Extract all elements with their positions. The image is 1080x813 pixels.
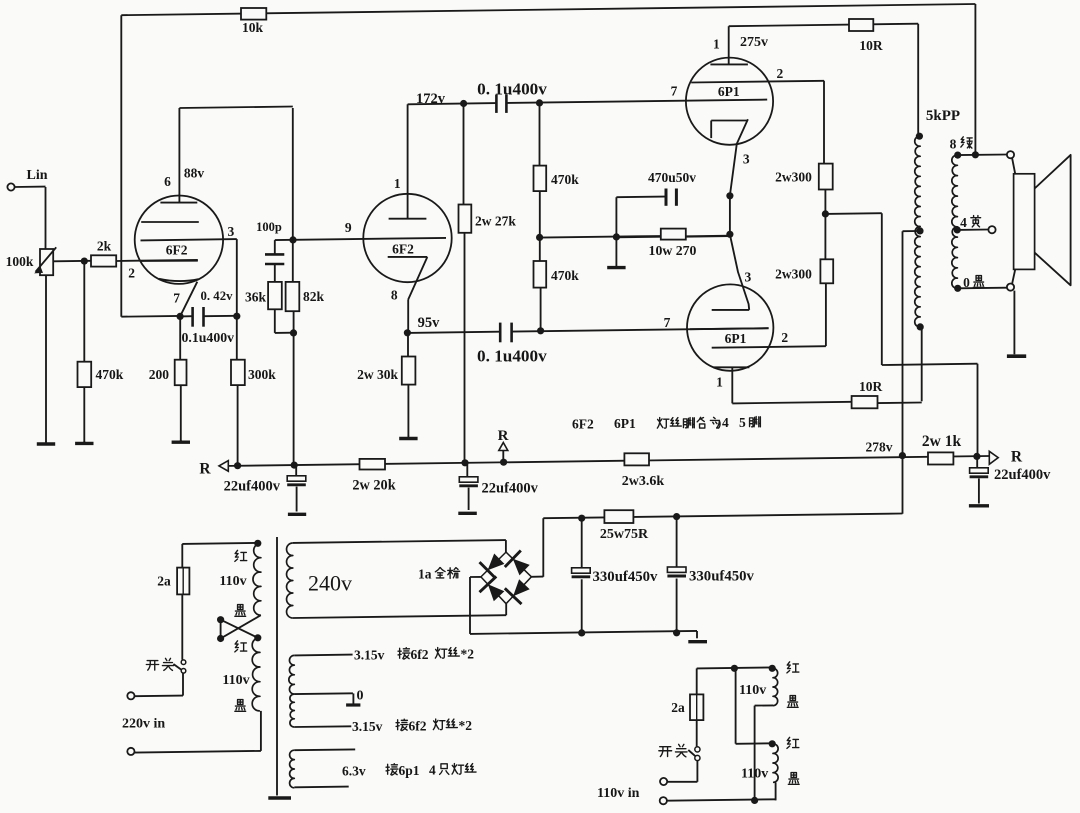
- svg-text:*2: *2: [459, 718, 473, 733]
- svg-text:2w300: 2w300: [775, 267, 812, 282]
- wire primary crossover connections: [221, 615, 261, 638]
- svg-text:172v: 172v: [416, 91, 446, 107]
- wire DC minus rail to ground: [470, 631, 697, 638]
- svg-text:10R: 10R: [859, 379, 883, 394]
- svg-text:R: R: [199, 461, 211, 478]
- wire 25w75R supply rail: [543, 514, 902, 519]
- label 0 centre tap: [357, 689, 364, 704]
- transformer 5kPP output primary: [915, 108, 960, 327]
- wire bridge positive riser: [531, 518, 543, 577]
- transformer mains primary winding 2: [252, 638, 260, 711]
- svg-text:470k: 470k: [96, 367, 124, 382]
- wire right switch to 110v terminal: [667, 761, 698, 782]
- junction dots 5kPP: [916, 133, 924, 331]
- svg-text:3: 3: [228, 224, 235, 239]
- junction dots supply rail: [578, 513, 680, 637]
- fuse 2a 110v unit: [671, 694, 703, 720]
- wire 3.15v winding leads: [294, 655, 353, 727]
- ground under pot: [37, 441, 55, 444]
- label V2 pins: [345, 176, 401, 303]
- svg-text:9: 9: [345, 220, 352, 235]
- wire V1 pin3 plate line to coupling node: [141, 239, 237, 316]
- svg-text:7: 7: [664, 315, 671, 330]
- label V4 pins: [664, 270, 789, 390]
- svg-text:10R: 10R: [859, 38, 883, 53]
- wire V2 pin1 plate riser and 172v row: [408, 103, 496, 219]
- svg-text:110v: 110v: [222, 673, 249, 688]
- resistor 82k: [286, 282, 325, 311]
- wire mid R arrow stem: [502, 450, 504, 462]
- wire pin3 interconnect of both 6P1: [729, 196, 731, 235]
- label 8 green tap: [950, 137, 973, 152]
- switch lever left: [173, 664, 181, 670]
- svg-text:1: 1: [716, 375, 723, 390]
- svg-text:6F2: 6F2: [572, 417, 594, 432]
- wire 110v winding interconnects: [736, 668, 776, 800]
- wire 6.3v winding leads: [294, 749, 355, 787]
- wire 240v winding bottom lead to bridge: [293, 604, 506, 618]
- wire switch to 220v terminal: [134, 673, 183, 696]
- ground speaker return: [1007, 291, 1026, 357]
- svg-text:1a: 1a: [418, 567, 432, 582]
- svg-text:0.1u400v: 0.1u400v: [182, 330, 235, 345]
- tube V1 6F2 first stage: [135, 196, 223, 317]
- terminal 220v neutral: [127, 748, 134, 755]
- svg-text:0. 42v: 0. 42v: [201, 289, 234, 303]
- wire lower 6P1 pin1 plate to bottom 10R to 5kPP bottom: [732, 327, 921, 404]
- label 4 yellow tap: [960, 215, 980, 230]
- svg-text:300k: 300k: [248, 367, 276, 382]
- capacitor 470u50v: [648, 170, 696, 206]
- ground under left 22uf: [288, 513, 306, 516]
- resistor 2w300 upper: [775, 164, 833, 190]
- tube V3 6P1 upper output: [686, 58, 773, 196]
- label mains primary red black: [219, 550, 249, 711]
- transformer 110v unit winding 1: [773, 668, 778, 705]
- switch mains: [146, 658, 185, 673]
- R bias rail mid arrow: [498, 428, 509, 451]
- potentiometer 100k volume: [6, 247, 57, 275]
- svg-text:2w3.6k: 2w3.6k: [622, 474, 665, 489]
- svg-text:275v: 275v: [740, 35, 768, 50]
- wire Lin input to volume pot: [15, 187, 46, 249]
- svg-text:6: 6: [164, 174, 171, 189]
- resistor 10w270: [649, 229, 697, 258]
- terminal speaker minus: [1007, 284, 1014, 291]
- svg-text:3.15v: 3.15v: [354, 648, 385, 663]
- svg-text:6P1: 6P1: [614, 416, 636, 431]
- resistor 300k: [231, 360, 276, 385]
- svg-text:3.15v: 3.15v: [352, 719, 383, 734]
- resistor 2w20k: [352, 459, 395, 494]
- wire 5kPP centre tap to 278v node and 25w75R rail riser: [903, 231, 921, 514]
- svg-text:2a: 2a: [157, 574, 171, 589]
- wire pot bottom to ground: [45, 275, 47, 442]
- wire upper 6P1 pin2 screen to 2w300: [691, 81, 824, 164]
- terminal Lin input: [7, 168, 47, 191]
- label 0 black tap: [963, 275, 984, 290]
- svg-text:6P1: 6P1: [725, 331, 747, 346]
- wire mains primary top lead: [182, 543, 257, 544]
- svg-text:2a: 2a: [671, 700, 685, 715]
- svg-text:6f2: 6f2: [411, 647, 429, 662]
- wire 82k bottom down to R rail: [293, 311, 295, 463]
- wire primary winding2 bottom to 220v terminal: [134, 711, 261, 753]
- resistor 10R lower: [852, 379, 883, 408]
- capacitor 0.1u400v coupling upper: [477, 80, 547, 113]
- svg-text:22uf400v: 22uf400v: [224, 479, 281, 495]
- wire 470k chain between output grids: [540, 103, 541, 331]
- resistor 2w3.6k: [622, 453, 665, 489]
- svg-text:7: 7: [173, 291, 180, 306]
- capacitor 22uf400v left: [224, 465, 306, 511]
- capacitor 330uf450v left: [572, 568, 658, 585]
- tube V4 6P1 lower output: [687, 235, 773, 371]
- label 6.3v heater: [342, 763, 476, 779]
- resistor 10R upper: [849, 19, 883, 53]
- svg-text:8: 8: [950, 137, 957, 152]
- label 110v windings red black: [739, 662, 799, 785]
- svg-text:R: R: [498, 428, 509, 444]
- wire R bias rail: [222, 456, 989, 466]
- svg-text:0: 0: [357, 689, 364, 704]
- label 220v in: [122, 717, 165, 732]
- wire V2 pin8 cathode to 95v row: [408, 257, 427, 333]
- resistor 2w27k: [459, 205, 517, 233]
- transformer secondary 240v: [287, 543, 352, 618]
- svg-text:1: 1: [394, 176, 401, 191]
- svg-text:0. 1u400v: 0. 1u400v: [477, 347, 547, 366]
- svg-text:4: 4: [429, 763, 436, 778]
- wire lower 2w300 to lower 6P1 pin2 screen: [712, 283, 826, 348]
- resistor 470k lower grid leak: [534, 261, 580, 288]
- wire 2w27k branch from 172v node to R rail: [464, 104, 465, 463]
- ground under middle 22uf: [458, 512, 477, 515]
- wire mains fuse and switch chain: [181, 544, 183, 660]
- ground mid 470u: [607, 237, 625, 267]
- svg-text:10w 270: 10w 270: [649, 243, 697, 258]
- svg-text:25w75R: 25w75R: [600, 527, 649, 542]
- ground under 470k: [75, 441, 93, 443]
- resistor 200 cathode: [149, 360, 187, 386]
- wire top feedback rail from speaker to 10k: [121, 4, 975, 317]
- wire 36k bottom lead: [275, 309, 294, 333]
- transformer 110v unit winding 2: [773, 744, 778, 783]
- svg-text:Lin: Lin: [26, 168, 47, 183]
- svg-text:6.3v: 6.3v: [342, 764, 366, 779]
- switch lever right: [688, 750, 696, 757]
- terminal 110v live: [660, 778, 667, 785]
- resistor 2w300 lower: [775, 259, 833, 283]
- wire 300k to R rail: [236, 316, 239, 464]
- label 3.15v heater bottom: [352, 718, 472, 734]
- junction dots 110v unit: [731, 665, 776, 804]
- svg-text:82k: 82k: [303, 289, 325, 304]
- svg-text:470k: 470k: [551, 268, 579, 283]
- svg-text:2w 20k: 2w 20k: [352, 478, 395, 494]
- svg-text:470k: 470k: [551, 172, 579, 187]
- svg-text:R: R: [1011, 449, 1023, 466]
- resistor 2w1k: [922, 433, 962, 465]
- svg-text:*2: *2: [461, 647, 475, 662]
- terminal 110v neutral: [660, 797, 667, 804]
- svg-text:1: 1: [713, 37, 720, 52]
- svg-text:100p: 100p: [256, 220, 282, 234]
- junction dot 278v: [899, 452, 906, 459]
- wire V1 pin6 plate riser and top jog to 82k node: [179, 107, 292, 282]
- svg-text:110v: 110v: [219, 574, 246, 589]
- tube V2 6F2 second stage: [363, 194, 451, 282]
- svg-text:88v: 88v: [184, 166, 205, 181]
- ground 3.15v centre tap: [346, 693, 360, 705]
- bridge rectifier 1a: [418, 551, 531, 605]
- ground under 2w30k: [399, 436, 417, 439]
- wire grid row to V2 pin9: [275, 238, 446, 240]
- svg-text:2w 27k: 2w 27k: [475, 214, 516, 229]
- wire first cathode junction row with 0.1u coupling cap: [180, 315, 237, 318]
- label 0.42v: [201, 289, 234, 303]
- label 278v: [866, 440, 893, 455]
- svg-text:5: 5: [739, 415, 746, 430]
- svg-text:100k: 100k: [6, 254, 34, 269]
- svg-text:2w 1k: 2w 1k: [922, 433, 962, 450]
- svg-text:6F2: 6F2: [392, 242, 414, 257]
- resistor 470k upper grid leak: [534, 166, 580, 192]
- wire 2w30k cathode branch: [407, 333, 409, 436]
- svg-text:240v: 240v: [308, 571, 352, 596]
- svg-text:2w300: 2w300: [775, 170, 812, 185]
- svg-text:2: 2: [777, 66, 784, 81]
- svg-text:470u50v: 470u50v: [648, 170, 696, 185]
- terminal speaker plus: [1007, 151, 1014, 158]
- wire feedback to first cathode: [121, 315, 180, 318]
- ground DC minus: [688, 640, 707, 643]
- label 3.15v heater top: [354, 647, 474, 663]
- wire 172v row after coupling cap to 6P1 pin7 grid line: [507, 100, 768, 103]
- svg-text:2: 2: [781, 330, 788, 345]
- terminal speaker mid: [988, 226, 995, 233]
- resistor 470k input grid leak: [78, 362, 124, 387]
- capacitor 330uf450v right: [667, 567, 754, 585]
- svg-text:330uf450v: 330uf450v: [689, 569, 755, 585]
- wire 110v bottom rail: [667, 799, 776, 800]
- svg-text:6F2: 6F2: [166, 243, 188, 258]
- label V3 pins and 275v: [671, 35, 784, 167]
- fuse 2a mains: [157, 568, 189, 595]
- wire upper 6P1 pin1 plate to 10R and 5kPP top: [729, 24, 919, 137]
- label 172v: [416, 91, 446, 107]
- resistor 36k: [245, 282, 282, 309]
- transformer mains primary winding 1: [253, 543, 261, 615]
- svg-text:6f2: 6f2: [409, 719, 427, 734]
- wire 2w300 junction to feedback node: [825, 189, 977, 456]
- wire pot wiper row to 2k and tube V1 pin2 grid: [53, 260, 198, 261]
- resistor 25w75R: [600, 510, 649, 542]
- wire bridge negative lead: [470, 577, 481, 634]
- speaker: [1014, 155, 1071, 285]
- wire 95v row with coupling cap to lower 6P1 pin7: [407, 328, 768, 333]
- transformer 5kPP secondary: [952, 155, 958, 288]
- wire 5kPP secondary leads to speaker: [957, 155, 1007, 289]
- label V1 pins and voltages: [128, 166, 234, 306]
- transformer secondary 6.3v: [290, 750, 295, 788]
- svg-text:36k: 36k: [245, 290, 267, 305]
- junction dots mains primary: [217, 540, 261, 642]
- capacitor 0.1u400v coupling lower: [477, 323, 547, 366]
- svg-text:278v: 278v: [866, 440, 893, 455]
- R bias rail left arrow: [199, 461, 228, 478]
- wire 110v unit top rail and fuse chain: [697, 667, 773, 746]
- capacitor 22uf400v right: [970, 456, 1052, 503]
- svg-text:110v in: 110v in: [597, 786, 640, 801]
- svg-text:8: 8: [391, 288, 398, 303]
- svg-text:200: 200: [149, 367, 170, 382]
- capacitor 100p: [256, 220, 284, 264]
- label heater note: [572, 415, 760, 432]
- arrow R output right: [989, 449, 1023, 466]
- svg-text:3: 3: [745, 270, 752, 285]
- wire 470k grid-leak branch: [83, 261, 85, 442]
- wire 240v winding top lead to bridge: [293, 540, 506, 552]
- svg-text:4: 4: [960, 215, 967, 230]
- svg-text:330uf450v: 330uf450v: [593, 569, 659, 585]
- svg-text:6p1: 6p1: [399, 763, 420, 778]
- svg-text:22uf400v: 22uf400v: [482, 481, 539, 497]
- transformer secondary 3.15v windings: [289, 655, 294, 727]
- wire 470u50v leads and 10w270 row between pin3 nodes: [540, 197, 730, 238]
- svg-text:110v: 110v: [741, 767, 768, 782]
- svg-text:110v: 110v: [739, 683, 766, 698]
- wire 330uf smoothing caps: [582, 517, 677, 633]
- svg-text:22uf400v: 22uf400v: [994, 467, 1051, 483]
- switch 110v unit: [659, 744, 700, 760]
- ground under right 22uf: [969, 504, 989, 507]
- resistor 2k grid stopper: [91, 239, 116, 267]
- junction dots 5kPP secondary: [954, 151, 979, 292]
- svg-text:95v: 95v: [418, 315, 441, 331]
- transformer mains core: [268, 537, 291, 798]
- label 95v: [418, 315, 441, 331]
- svg-text:7: 7: [671, 84, 678, 99]
- capacitor 0.1u400v cathode bypass: [182, 307, 235, 345]
- ground under 200: [172, 440, 190, 442]
- resistor 2w30k: [357, 357, 415, 385]
- svg-text:5kPP: 5kPP: [926, 108, 960, 124]
- svg-text:2w 30k: 2w 30k: [357, 367, 398, 382]
- svg-text:2: 2: [128, 266, 135, 281]
- label 110v in: [597, 786, 640, 801]
- wire 100p leads: [274, 240, 276, 282]
- svg-text:3: 3: [743, 152, 750, 167]
- wire lower 6P1 pin7 grid line: [690, 328, 769, 329]
- wire 200 ohm cathode resistor branch: [179, 316, 182, 440]
- junction dot R output: [973, 453, 980, 460]
- svg-text:6P1: 6P1: [718, 84, 740, 99]
- wire speaker terminal diagonals: [1012, 158, 1015, 285]
- resistor 10k feedback: [241, 8, 266, 35]
- svg-text:0. 1u400v: 0. 1u400v: [477, 80, 547, 99]
- junction dots main circuit: [81, 99, 829, 336]
- capacitor 22uf400v middle: [459, 463, 538, 510]
- svg-text:10k: 10k: [242, 20, 264, 35]
- junction dots R rail: [234, 459, 507, 470]
- svg-text:4: 4: [722, 415, 729, 430]
- terminal 220v live: [127, 692, 134, 699]
- svg-text:0: 0: [963, 275, 970, 290]
- svg-text:220v in: 220v in: [122, 717, 165, 732]
- svg-text:2k: 2k: [97, 239, 112, 254]
